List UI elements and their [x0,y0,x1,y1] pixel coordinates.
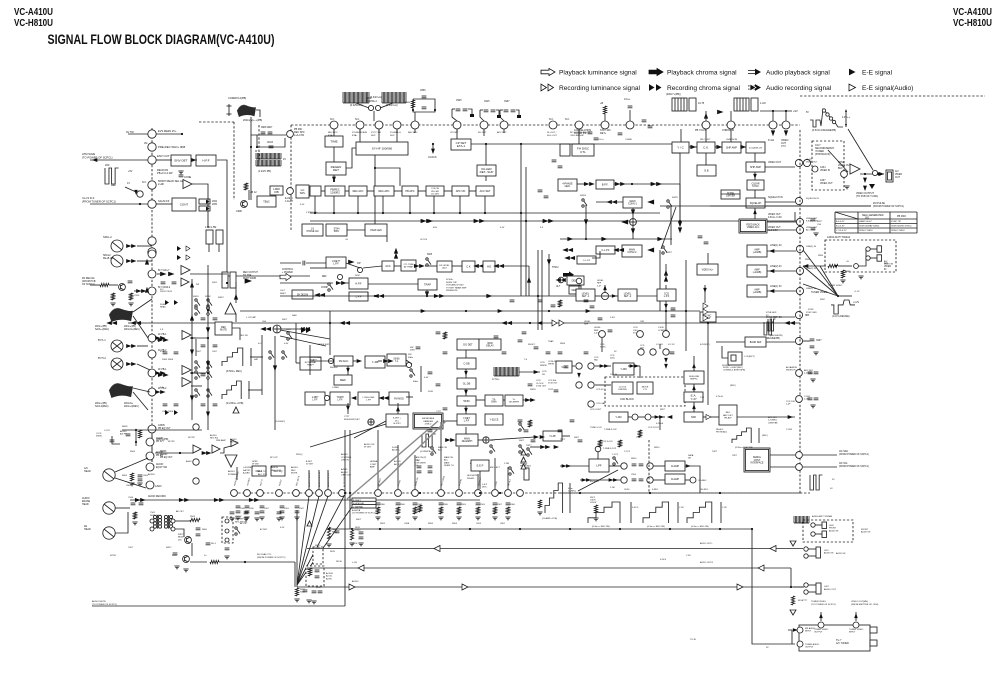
svg-text:D9C8 C9C8: D9C8 C9C8 [160,291,173,293]
svg-text:AF CE?: AF CE? [240,522,248,525]
block CONT [172,198,196,211]
svg-text:R600: R600 [202,529,208,531]
block VCN [556,361,572,373]
svg-text:GL.DB: GL.DB [463,382,471,385]
svg-text:VIDEO IN: VIDEO IN [820,170,830,172]
svg-text:SET -1: SET -1 [582,295,590,298]
svg-text:2.2V+-+: 2.2V+-+ [842,117,851,119]
svg-text:OD-REC: OD-REC [698,480,707,482]
arrows fm mod [380,397,384,400]
svg-text:CCD: CCD [542,371,547,373]
pin head 5F T-0A/+7 [148,270,156,278]
svg-text:R903: R903 [452,523,458,525]
wire shp to clear [754,172,756,180]
wire yc2 [715,146,722,148]
svg-text:REC: REC [291,470,296,472]
ground video [869,184,875,189]
arrow p1 down [771,131,774,136]
svg-text:REC APC: REC APC [379,190,390,193]
wire fm row links [353,360,357,362]
pin mode det [368,419,374,425]
svg-text:N.C: N.C [565,118,570,121]
svg-text:R908: R908 [560,343,566,345]
svg-text:R860: R860 [405,102,411,104]
svg-text:CLAMP: CLAMP [671,465,680,468]
wire line2 [767,270,796,272]
wire cone out [192,184,208,228]
resistor R62 cluster [295,588,298,596]
arrows luma low a [340,321,344,324]
adder circle [273,325,281,333]
wire trap down [426,290,428,296]
ground c925 [470,114,474,117]
open arrow L2 left [434,546,440,552]
svg-text:VC-H810U: VC-H810U [14,17,53,29]
wire emph in [693,356,695,371]
arrow adder in [622,220,628,224]
svg-text:5W25: 5W25 [672,197,678,199]
block LC SPL [296,185,309,198]
resistor cluster t6 [638,430,641,437]
video head circle 2 [111,358,123,370]
pin tuner video in [853,622,859,628]
svg-text:EN M&CT: EN M&CT [590,481,600,483]
wire row d [394,190,402,192]
switch sw1b [509,467,514,475]
svg-text:+6V/REC: +6V/REC [247,477,251,486]
wire head2 down [730,111,732,121]
block PB APC [402,186,418,196]
capacitor DD-1 [206,543,211,545]
svg-text:CCD 10U: CCD 10U [786,401,795,403]
wire row c [367,190,374,192]
capacitor on comp wire [303,261,305,266]
pin labels chroma bus [328,131,338,137]
svg-text:2-0: 2-0 [540,227,544,229]
arrows luma a [374,294,378,297]
svg-text:2Y44 OUT: 2Y44 OUT [536,386,547,388]
svg-text:C-TU-+: C-TU-+ [492,379,500,381]
audio out chain LPF [589,459,609,472]
svg-text:HEAD: HEAD [82,503,89,506]
capacitor C906 [261,132,266,134]
capacitor C960 [810,339,815,341]
wire head1 down [705,111,707,121]
wire mute lk [232,328,240,340]
svg-text:CCD: CCD [633,327,638,329]
capacitor cluster t14 [428,372,433,374]
block latch B [199,206,210,211]
svg-text:VIDEO IN: VIDEO IN [884,264,894,266]
svg-text:(200m*+(PB)): (200m*+(PB)) [666,93,681,96]
svg-text:CCD: CCD [536,380,541,382]
wire hpf out [217,160,227,276]
dotted boundary right drop [290,125,292,231]
wire squelch down [754,153,756,162]
right column pin labels [806,159,818,164]
svg-text:VIDEO OUT: VIDEO OUT [838,165,851,167]
svg-text:MUTE: MUTE [220,329,227,332]
capacitor pair tap a [417,466,422,468]
wire opamp out row4 [191,385,202,387]
block LPF main [349,292,368,301]
pin SYNC NC [795,311,802,318]
svg-text:VC-H810U: VC-H810U [953,17,992,29]
dashed box A61 [313,547,323,564]
arrows head lower [127,260,131,263]
arrows he left [494,264,498,267]
capacitor cluster t6 [416,347,421,349]
arrow line3 [770,290,774,293]
arrow clock [432,149,435,153]
jack VIDEO IN [866,246,882,252]
svg-text:OH ?: OH ? [280,290,286,292]
gray audio diagonal a [347,421,438,499]
svg-text:MODE SW5: MODE SW5 [318,344,330,346]
wire ext trap feed [295,323,297,363]
svg-text:TRAP?: TRAP? [310,359,318,362]
svg-text:0.5V-4: 0.5V-4 [632,507,639,509]
pin SQUELCH IN [795,197,802,204]
svg-text:P-111: P-111 [768,139,775,142]
pin PRE-REC [148,143,156,151]
capacitor cluster t13 [502,352,507,354]
svg-text:AUDIO: AUDIO [120,430,127,433]
svg-text:R903: R903 [461,504,467,506]
arrow feed a [206,308,209,313]
svg-text:OUT: OUT [895,177,900,179]
pin tuner audio out [797,641,803,647]
svg-text:BY?L-1: BY?L-1 [98,340,106,342]
svg-text:T20M F-CO2: T20M F-CO2 [590,427,603,429]
svg-text:+1.2V: +1.2V [853,302,860,304]
wire sw vert2 [274,336,276,430]
vertical wire x605 up [604,285,606,292]
svg-text:REF: REF [322,276,327,278]
svg-text:SETA OSC: SETA OSC [150,514,161,517]
capacitor C905 [163,404,168,406]
svg-text:200m/A+: 200m/A+ [124,402,134,405]
arrows vhead2 [127,363,131,366]
svg-text:(D 233m+-4 PB): (D 233m+-4 PB) [226,402,244,405]
svg-text:DO DET: DO DET [463,343,473,346]
wire dotted tail [151,433,153,462]
arrows luma head [107,321,111,324]
svg-text:SY?C 100: SY?C 100 [371,132,382,134]
svg-text:(+6V/REC: (+6V/REC [243,467,253,469]
ground audio a [132,522,137,525]
svg-text:C908: C908 [236,210,242,213]
audio mute wire [92,605,345,607]
arrow lpf l [352,397,356,400]
resistor R922 [111,293,114,300]
svg-text:A4301 A43?? SW3A4: A4301 A43?? SW3A4 [812,515,833,518]
stub group chroma [333,129,335,133]
pin cn50 a [225,519,229,523]
svg-text:L.E.P: L.E.P [482,484,488,486]
wire table feed [710,205,871,207]
resistor R987 [841,270,844,278]
svg-text:Y-LPF: Y-LPF [549,435,556,438]
svg-text:(REC): (REC) [762,435,768,437]
pin y430 b [645,414,651,420]
vertical x752 to tuner [752,529,795,644]
wire acc to ctl [394,265,401,267]
connector A/V VIDEO OUT [886,170,893,182]
svg-text:VIDEO OUT: VIDEO OUT [820,183,833,185]
svg-text:C.K.: C.K. [703,146,709,150]
legend recording chroma signal [649,84,740,92]
wire band out [766,341,795,343]
block sync gen [356,142,408,155]
svg-text:Y / C: Y / C [677,146,684,150]
svg-text:40%: 40% [433,227,437,229]
wire mode diag [354,421,386,438]
svg-text:L/MSY/BE: L/MSY/BE [768,422,778,424]
block Y-LPF [543,431,562,441]
capacitor C80B [110,440,115,442]
svg-text:5F DW: 5F DW [252,464,259,466]
svg-text:Recording luminance signal: Recording luminance signal [559,85,641,92]
wire r800 [604,114,606,121]
wire y438 down [639,366,641,378]
wire c80b [112,436,120,444]
svg-text:R503: R503 [190,516,196,518]
svg-text:(C-REC): (C-REC) [568,491,576,493]
video head lower (FM) [734,98,749,111]
capacitor PN-C [266,201,271,203]
svg-text:WR/IN: WR/IN [540,365,547,367]
svg-text:(+10dB): (+10dB) [753,291,762,294]
svg-text:N.C: N.C [160,289,164,291]
arrow rec arc [788,416,792,419]
wire cross a [661,207,676,249]
staircase audio 2 [643,502,669,523]
vertical long feeds ccd [685,260,687,351]
block MAIN CONV-1 [623,197,642,208]
jack AUDIO OUT bottom [804,583,808,587]
wire rec amp out [235,314,237,322]
svg-text:C509: C509 [240,508,246,510]
svg-text:I2C SDA: I2C SDA [839,450,848,453]
svg-text:SW24: SW24 [580,195,587,197]
wire env2 [192,159,197,161]
svg-text:SP IN?: SP IN? [168,441,175,443]
svg-text:BATTER: BATTER [235,518,244,521]
arrow fm rec [718,110,723,114]
wire sw out [530,446,540,448]
capacitor R903 [457,503,462,505]
svg-text:C50?: C50? [128,547,134,549]
svg-text:CD90: CD90 [624,489,630,491]
svg-text:SUBS TUF: SUBS TUF [446,282,457,284]
svg-text:SHP AMP: SHP AMP [750,166,761,169]
svg-text:5V: 5V [806,112,809,114]
svg-text:200m+(PB): 200m+(PB) [95,326,107,328]
svg-text:60Hz: 60Hz [413,381,418,383]
svg-text:ENV OUT: ENV OUT [157,154,170,158]
svg-text:AUDIO MUTE: AUDIO MUTE [92,600,106,603]
pin clamp b1 [621,477,627,483]
wire y438 in [595,365,611,367]
audio PB EQ label [275,421,285,423]
svg-text:COMP: COMP [321,287,328,289]
wire bpf out [614,183,680,185]
adder audio [483,437,489,443]
svg-text:50Hz: 50Hz [408,357,413,359]
svg-text:PRE-REC WLD+ 0KB: PRE-REC WLD+ 0KB [158,145,185,149]
block AMP line1 [747,245,767,257]
block TDMH LPF [330,392,350,405]
open triangle gnd front [790,541,796,546]
svg-text:EMPH+: EMPH+ [690,379,698,381]
svg-text:E-2V(EXT): E-2V(EXT) [700,344,710,346]
wire row a [321,190,325,192]
svg-text:OUTPUT: OUTPUT [805,647,814,649]
switch SW25 [667,200,672,208]
capacitor cone [179,175,184,177]
resistor R504 [133,512,136,519]
pin audio bus [375,490,382,497]
resistor R800 [603,106,606,114]
svg-text:10-75: 10-75 [698,102,705,105]
arrows clpf2 [565,256,569,259]
wire tu audio lk [788,630,792,644]
triangle up open [233,407,239,413]
block 50 60 YL [387,354,406,366]
svg-text:PB EQ: PB EQ [156,455,163,457]
svg-text:W-DET: W-DET [528,344,536,346]
svg-text:SW-T: SW-T [282,319,288,321]
svg-text:Y-4?: Y-4? [700,397,705,399]
bus luminance low [128,322,800,324]
block GL DB [457,378,476,389]
capacitor C920 [269,146,274,148]
wire diag from waveform [848,129,873,170]
block FH DISC CTL [572,144,594,156]
svg-text:AUDIO IN: AUDIO IN [824,552,834,555]
pin chroma gnd [795,337,802,344]
svg-text:C903: C903 [480,504,486,506]
svg-text:VIDEO THRU: VIDEO THRU [891,230,905,232]
svg-text:2V: 2V [283,158,286,161]
staircase audio 0 [545,483,563,513]
block Y-C mixer [672,142,689,153]
arrow feed d [190,396,193,401]
arrow bus239 c [658,237,663,240]
ground jack [858,276,863,279]
arrow lvl [612,295,616,298]
svg-text:CCD: CCD [600,344,605,346]
svg-text:MAIN: MAIN [444,461,450,464]
svg-text:D901: D901 [212,282,218,284]
block Y-438 [613,363,634,375]
waveform video out line [810,109,843,127]
capacitor cluster t25 [564,366,569,368]
pin audio bus [517,490,524,497]
svg-text:(D 50m+ REC): (D 50m+ REC) [226,370,242,373]
pin arc set [796,370,803,377]
pb amp row 1 [161,272,166,276]
dotted boundary top [199,121,234,123]
wire ref diag [125,187,136,192]
svg-text:0.6V: 0.6V [284,343,289,345]
wire buf out [860,173,884,175]
capacitor C907 pair [504,110,509,112]
svg-text:SYNC: SYNC [752,185,759,188]
wire clock in [595,384,611,386]
svg-text:N.C: N.C [330,118,335,121]
block TRAP [418,279,437,290]
svg-text:C807: C807 [500,523,506,525]
svg-text:C?2T: C?2T [344,416,350,418]
switch bank PB [195,299,200,307]
pin ENV OUT [148,156,156,164]
svg-text:C 8V: C 8V [679,507,684,509]
svg-text:Y-CC2: Y-CC2 [624,451,631,453]
svg-text:(REC): (REC) [730,385,736,387]
svg-text:2/SE-2: 2/SE-2 [425,423,432,425]
block CLAMP A [665,461,685,471]
wire band in [716,341,745,343]
svg-text:MAIN ON (P): MAIN ON (P) [414,456,427,459]
wire fan a [803,250,838,296]
resistor cluster t0 [418,505,421,512]
svg-text:C5R: C5R [640,321,645,323]
svg-text:VIDEO OUT: VIDEO OUT [768,161,782,164]
arrow gnd a [864,178,867,182]
svg-text:50Hz: 50Hz [334,230,340,233]
svg-text:C925: C925 [456,100,462,102]
svg-text:CCD V4: CCD V4 [596,389,604,391]
video head upper (FM) [672,98,687,111]
svg-text:SYNC: SYNC [600,347,606,349]
svg-text:L-CH: L-CH [352,562,357,564]
block FH disc aux [560,144,570,156]
capacitor cluster t1 [546,352,551,354]
svg-text:I2C SCL: I2C SCL [839,463,848,465]
svg-text:C50?: C50? [299,508,305,510]
long feed from luma bus to fm [329,311,331,355]
ground col [813,233,818,236]
svg-text:0-0++: 0-0++ [624,98,631,101]
svg-text:SW: SW [410,347,413,349]
svg-text:VIDEO OUT: VIDEO OUT [806,227,818,229]
svg-text:MAIN: MAIN [464,438,470,441]
pin audio bus [505,490,512,497]
pin P2 [782,121,790,129]
bus chroma mid [310,212,660,214]
switch SW24 [582,199,587,207]
svg-text:THRU: THRU [552,267,559,269]
capacitor pair tap b [428,466,433,468]
svg-text:BAND SEP: BAND SEP [750,341,762,344]
svg-text:CCD: CCD [540,362,545,364]
svg-text:L. SCOMP: L. SCOMP [246,317,257,319]
block VIDEO ALC aux [697,264,718,275]
svg-text:FM AGC: FM AGC [330,366,338,369]
svg-text:CCD BLOCK: CCD BLOCK [620,398,634,401]
pin I2C SDA [796,452,803,459]
resistor R60D [138,430,141,438]
svg-text:(+10dB): (+10dB) [753,251,762,254]
svg-text:TUNER VIDEO: TUNER VIDEO [811,291,827,294]
wire syncgen down [374,155,376,186]
svg-text:A4302 A43?? SW3A4: A4302 A43?? SW3A4 [827,236,851,239]
comb waveform head pulse upper [256,153,281,159]
svg-text:VIDEO OUT: VIDEO OUT [768,214,781,216]
block Y-430 [609,412,628,422]
